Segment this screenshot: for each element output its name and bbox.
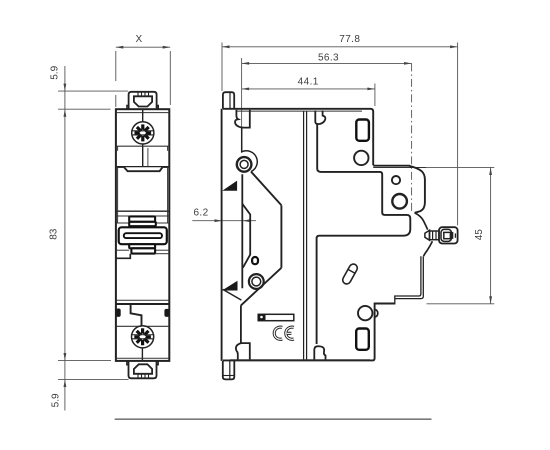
screw top outer [132,122,154,144]
side step right [373,165,410,167]
dimension 77.8 line [222,43,458,226]
side parting line left [303,112,305,360]
side bottom inner line [230,359,370,361]
left dimension line 5.9/83/5.9 [58,66,129,411]
screw top star [135,124,152,141]
svg-text:45: 45 [474,229,485,241]
front line y253.7 right [155,253,169,255]
front body outline [116,109,169,361]
svg-text:83: 83 [48,228,59,240]
dimension X arrows [116,46,170,49]
dimension 6.2 line [192,220,256,222]
left dimension arrows [64,84,67,387]
side circle upper [354,151,368,165]
side bulge top [409,166,425,213]
side hook2 [315,111,325,125]
side big circle bulge [392,194,407,209]
side S-curve below terminal [424,241,433,256]
side hook2 bottom [314,346,325,360]
side screw hole upper outer [237,157,252,172]
front clip left [116,309,121,317]
screw top center hole [139,130,146,137]
side S-curve to terminal [415,213,428,230]
svg-text:77.8: 77.8 [339,34,360,45]
front bottom cap opening [134,364,152,374]
dimension X line [116,47,171,107]
side circle lower [358,306,372,320]
front top cap ribs [138,92,149,96]
front groove ribbon [124,167,162,171]
side boot [236,343,250,360]
front line y166.6 [116,166,169,168]
side slot lower [356,329,369,350]
centerline dash-dot [411,63,413,213]
terminal shaft [430,231,440,240]
side mid vertical of recess [280,205,282,267]
svg-text:5.9: 5.9 [50,393,61,407]
dimension 6.2 arrows [215,219,251,222]
front bottom cap ribs [138,374,149,378]
terminal head inner [441,229,451,241]
side channel mid [241,174,243,288]
side top tab [223,92,234,109]
side wedge top [224,182,237,191]
svg-text:44.1: 44.1 [298,76,319,87]
dimension 45 line [426,167,494,303]
side diag small [223,289,242,300]
side edge nub [375,309,378,317]
front line y304 [116,303,169,305]
front left step [116,254,130,259]
screw top slot lines [132,130,154,132]
side top tab inner [229,92,231,109]
side bottom right step [223,304,396,361]
rocker step upper1 [129,216,155,221]
side hook1 [235,110,250,128]
front clip right [164,309,169,317]
terminal head notch [454,233,456,237]
side big diagonal lower [241,268,282,306]
front bottom cap [129,361,157,378]
front line y358.3 [116,357,169,359]
front top cap [129,92,157,109]
front line y146 [116,145,169,147]
front line y250 [116,249,129,251]
side left face [221,109,223,361]
dimension 44.1 line [242,84,375,107]
terminal head inner rect [444,232,451,238]
rocker slot [124,233,162,238]
side screw hole upper inner [240,160,248,168]
front center line below screw [142,144,144,167]
terminal cover L inner [395,256,421,303]
rocker handle [119,227,167,244]
front center line upper [142,109,144,122]
side channel rib [242,204,250,268]
side channel lower vertical [240,305,242,343]
side label window end [258,314,265,320]
front line y211 [116,210,169,212]
front side ticks [117,168,119,223]
side label window [258,314,294,320]
side top edge [223,109,373,166]
screw bottom outer [132,326,154,348]
svg-text:X: X [135,34,142,45]
terminal shaft divider [432,231,434,240]
side channel upper [242,127,258,171]
rocker step lower2 [131,248,155,253]
terminal head [439,227,458,243]
front groove side lines [116,167,124,169]
dimension 77.8 arrows [222,45,458,48]
side slot upper [356,120,369,141]
front zigzag [131,304,142,326]
front seam [147,148,149,166]
rocker step upper2 [129,222,156,226]
side parting line right [306,112,308,360]
screw bottom star [132,327,153,348]
side ring circle [249,274,264,289]
svg-text:6.2: 6.2 [193,208,208,219]
front top cap feet [127,105,158,109]
side wedge bottom [224,282,237,290]
front line y223 [116,222,169,224]
dimension 45 arrows [489,168,492,304]
dimension 56.3 line [242,58,412,128]
front bottom cap feet [127,361,158,365]
side top edge inner line [236,110,362,112]
svg-text:5.9: 5.9 [50,65,61,79]
screw bottom center hole [139,333,146,340]
baseline [115,418,432,420]
screw bottom slot lines [132,334,154,336]
side bottom tab inner [229,361,231,380]
terminal cover L outer [395,256,424,298]
front top inner line [116,112,169,114]
side bottom tab [223,361,235,380]
front top cap opening [134,96,152,106]
terminal cone [425,230,430,240]
front line y326 [116,325,169,327]
front center line bottom [141,347,143,360]
front line y216 [116,215,169,217]
svg-text:56.3: 56.3 [318,53,339,64]
CE mark C [274,327,282,339]
side small circle bulge [392,176,400,184]
rocker step lower1 [129,244,155,248]
side small oval [252,257,258,264]
CE mark E [286,327,294,339]
front line y300 [116,299,169,301]
dimension 56.3 arrows [242,62,412,65]
side inner box upper [317,125,411,345]
dimension 44.1 arrows [242,88,375,91]
side big diagonal upper [251,172,281,206]
side tilted pin [341,263,358,286]
